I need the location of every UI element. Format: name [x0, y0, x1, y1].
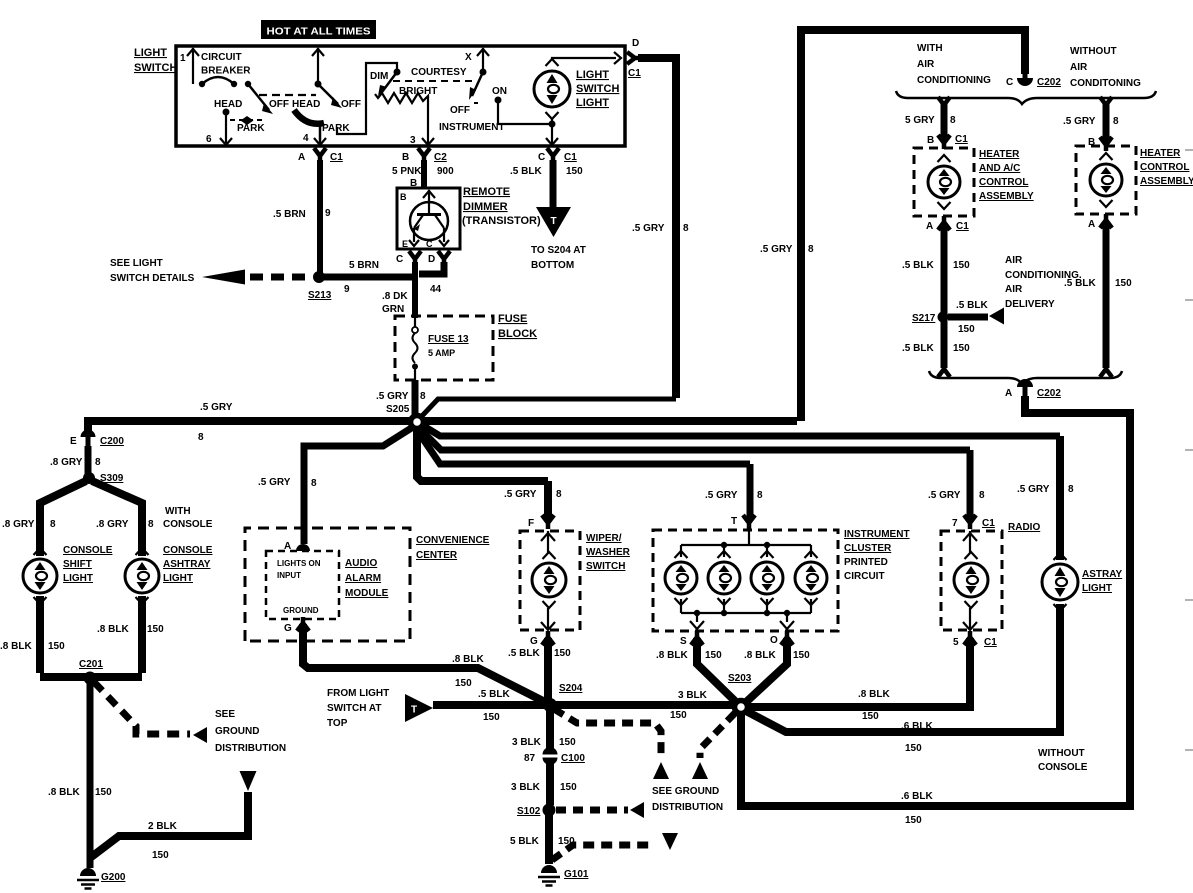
svg-text:B: B [927, 135, 934, 146]
wire head1 to pin 6 [206, 112, 232, 145]
heater and ac control assembly box [914, 148, 974, 216]
svg-text:GROUND: GROUND [283, 606, 319, 615]
svg-text:LIGHT: LIGHT [134, 47, 167, 59]
wire switch2 from top edge [312, 48, 324, 88]
wire A C1 to S217 (.5 BLK 150) [902, 223, 970, 314]
ganged link dim-instrument dashed [393, 80, 477, 82]
wire on to lamp bottom [498, 100, 552, 124]
svg-text:.8 DK: .8 DK [382, 291, 408, 302]
wire C200 to S309 (.8 GRY 8) [50, 446, 101, 474]
svg-text:HEAD: HEAD [214, 99, 242, 110]
convenience center dashed box [245, 528, 410, 641]
svg-text:8: 8 [683, 223, 689, 234]
with air conditioning text [917, 43, 991, 86]
console ashtray light lamp [125, 548, 159, 604]
svg-text:.5 GRY: .5 GRY [258, 477, 291, 488]
cluster label [844, 529, 910, 582]
wire fan R5 to cluster drop [417, 430, 750, 464]
svg-text:.8 BLK: .8 BLK [656, 650, 688, 661]
svg-text:CIRCUIT: CIRCUIT [201, 52, 242, 63]
svg-text:BLOCK: BLOCK [498, 328, 537, 340]
svg-text:.8 BLK: .8 BLK [744, 650, 776, 661]
wire resistor to pin 3 [410, 97, 434, 146]
head contact 1 [214, 99, 242, 116]
svg-text:8: 8 [979, 490, 985, 501]
svg-text:5: 5 [953, 637, 959, 648]
on contact [474, 86, 507, 104]
svg-text:FUSE: FUSE [498, 313, 527, 325]
svg-text:8: 8 [198, 432, 204, 443]
svg-text:S205: S205 [386, 404, 410, 415]
svg-text:WITH: WITH [917, 43, 943, 54]
radio entry arrow [963, 531, 977, 553]
svg-text:SWITCH DETAILS: SWITCH DETAILS [110, 273, 195, 284]
from light switch at top T arrow [405, 694, 433, 722]
svg-text:ASSEMBLY: ASSEMBLY [1140, 176, 1193, 187]
svg-text:PARK: PARK [237, 123, 265, 134]
svg-text:150: 150 [705, 650, 722, 661]
svg-text:MODULE: MODULE [345, 588, 389, 599]
wire D C1 down right side (.5 GRY 8) [632, 58, 689, 398]
svg-text:OFF: OFF [269, 99, 289, 110]
ground G101 [538, 865, 589, 886]
wire lamp top to D exit [552, 52, 621, 64]
svg-text:WASHER: WASHER [586, 547, 631, 558]
see light switch details text [110, 258, 195, 284]
svg-text:INPUT: INPUT [277, 571, 301, 580]
svg-text:150: 150 [670, 710, 687, 721]
wire fan R3 to astray drop [422, 425, 1060, 436]
wire fan R7 to wiper drop [417, 428, 548, 481]
wire C down to fuse block (.8 DK GRN) [382, 262, 415, 318]
connector G wiper [530, 631, 554, 647]
dashed wire see light switch details [202, 270, 313, 285]
connector B C1 heater [927, 134, 968, 149]
remote dimmer label [462, 186, 541, 227]
light switch label [134, 47, 177, 74]
svg-text:GROUND: GROUND [215, 726, 259, 737]
park label 2 [322, 123, 350, 134]
head label 2 [292, 99, 320, 110]
svg-text:ASHTRAY: ASHTRAY [163, 559, 211, 570]
svg-text:A: A [1088, 219, 1095, 230]
connector F wiper [528, 515, 554, 529]
svg-text:8: 8 [1113, 116, 1119, 127]
svg-text:.6 BLK: .6 BLK [901, 721, 933, 732]
connector E C200 [70, 430, 124, 448]
svg-text:.5 GRY: .5 GRY [1063, 116, 1096, 127]
svg-text:SHIFT: SHIFT [63, 559, 92, 570]
wiper washer switch label [586, 533, 631, 572]
svg-text:HEATER: HEATER [979, 149, 1020, 160]
connector S cluster [680, 631, 703, 647]
svg-text:B: B [402, 152, 409, 163]
heater and ac label [979, 149, 1034, 202]
cluster lamp 1 [665, 551, 697, 605]
connector C (dimmer) [396, 251, 421, 265]
svg-text:3 BLK: 3 BLK [511, 782, 541, 793]
svg-text:.5 BLK: .5 BLK [478, 689, 510, 700]
wire S217 to air delivery arrow (.5 BLK 150) [948, 300, 1004, 335]
svg-text:REMOTE: REMOTE [463, 186, 510, 198]
svg-text:150: 150 [152, 850, 169, 861]
svg-text:C: C [1006, 77, 1013, 88]
heater ac lamp [928, 155, 960, 209]
dim arm [378, 72, 397, 96]
svg-text:INSTRUMENT: INSTRUMENT [439, 122, 505, 133]
off label instrument [450, 105, 470, 116]
lower brace [929, 371, 1122, 384]
connector A C1 [298, 148, 343, 163]
svg-text:150: 150 [560, 782, 577, 793]
svg-text:AUDIO: AUDIO [345, 558, 377, 569]
connector D (dimmer) [428, 251, 450, 265]
svg-text:.5 GRY: .5 GRY [760, 244, 793, 255]
wire shift lamp down (.8 BLK 150) [0, 596, 65, 673]
T arrow to S204 at bottom [536, 207, 571, 237]
svg-text:8: 8 [1068, 484, 1074, 495]
wire to B heater (.5 GRY 8) [1063, 104, 1119, 144]
svg-text:.8 BLK: .8 BLK [452, 654, 484, 665]
splice S217 [912, 312, 949, 325]
cluster top bus [681, 530, 811, 557]
remote dimmer transistor box U1 [397, 188, 460, 249]
wire S203 down and right to without console riser (.6 BLK 150) [741, 713, 1126, 826]
connector bottom left AC branch [938, 363, 950, 377]
see ground distribution text (center) [652, 786, 723, 813]
astray light lamp [1042, 553, 1078, 611]
svg-text:7: 7 [952, 518, 958, 529]
svg-text:LIGHT: LIGHT [576, 97, 609, 109]
wire A C202 down right edge [1025, 396, 1130, 802]
splice S309 [83, 472, 124, 484]
svg-text:S203: S203 [728, 673, 752, 684]
circuit breaker CB [199, 52, 251, 87]
wire A C1 to S213 (.5 BRN 9) [273, 160, 331, 274]
svg-text:G101: G101 [564, 869, 589, 880]
svg-text:8: 8 [556, 489, 562, 500]
svg-text:DIMMER: DIMMER [463, 201, 508, 213]
splice C201 [79, 659, 103, 685]
wiper exit arrow [541, 608, 555, 630]
svg-text:PRINTED: PRINTED [844, 557, 888, 568]
pin G audio [284, 617, 309, 634]
svg-text:150: 150 [905, 743, 922, 754]
wire S204 down to C100 (3 BLK 150) [512, 709, 576, 750]
svg-text:DISTRIBUTION: DISTRIBUTION [215, 743, 286, 754]
svg-text:E: E [70, 436, 77, 447]
svg-text:150: 150 [566, 166, 583, 177]
connector bottom right nonAC branch [1100, 363, 1112, 377]
air conditioning air delivery text [1005, 255, 1082, 310]
svg-text:150: 150 [862, 711, 879, 722]
svg-text:WIPER/: WIPER/ [586, 533, 622, 544]
upper brace [896, 91, 1156, 104]
svg-text:150: 150 [559, 737, 576, 748]
wire radio 5 to S203 (.8 BLK 150) [745, 638, 970, 722]
heater control assembly box [1076, 146, 1136, 214]
svg-text:150: 150 [483, 712, 500, 723]
svg-text:AIR: AIR [1005, 284, 1023, 295]
svg-text:.8 BLK: .8 BLK [48, 787, 80, 798]
svg-text:C1: C1 [982, 518, 995, 529]
to s204 text [531, 245, 586, 271]
svg-text:A: A [1005, 388, 1012, 399]
wire S217 down (.5 BLK 150) [902, 320, 970, 368]
radio box [941, 531, 1002, 630]
svg-text:2 BLK: 2 BLK [148, 821, 178, 832]
svg-text:.5 GRY: .5 GRY [200, 402, 233, 413]
astray light label [1082, 569, 1123, 594]
svg-text:GRN: GRN [382, 304, 404, 315]
connector 5 C1 radio [953, 631, 997, 648]
connector C100 B7 [524, 747, 585, 765]
connector B C2 [402, 148, 447, 163]
cluster lamp 3 [751, 551, 783, 605]
light switch light lamp [534, 59, 570, 119]
fuse block dashed box [395, 316, 493, 380]
svg-text:LIGHT: LIGHT [1082, 583, 1112, 594]
svg-text:CONVENIENCE: CONVENIENCE [416, 535, 490, 546]
svg-text:G: G [530, 636, 538, 647]
wire fan R1 to D-C1 drop [421, 399, 676, 417]
svg-text:8: 8 [311, 478, 317, 489]
svg-text:150: 150 [95, 787, 112, 798]
svg-text:WITH: WITH [165, 506, 191, 517]
svg-text:.8 GRY: .8 GRY [96, 519, 129, 530]
wire S102 to G101 (5 BLK 150) [510, 814, 575, 864]
svg-text:150: 150 [455, 678, 472, 689]
pin A audio (lights on input) [284, 541, 310, 552]
svg-text:T: T [411, 705, 417, 716]
svg-text:D: D [632, 38, 639, 49]
svg-text:WITHOUT: WITHOUT [1070, 46, 1117, 57]
wire pin1 down from top edge [187, 48, 199, 84]
svg-text:INSTRUMENT: INSTRUMENT [844, 529, 910, 540]
wire audio G to S204 (.8 BLK 150) [303, 624, 545, 702]
svg-text:LIGHT: LIGHT [163, 573, 193, 584]
svg-text:C: C [538, 152, 545, 163]
svg-text:S217: S217 [912, 313, 936, 324]
dashed wire S203 to ground dist arrow 2 [700, 713, 735, 758]
ground dist arrow 1 [653, 762, 669, 779]
svg-text:RADIO: RADIO [1008, 522, 1040, 533]
switch arm 1 (head/off/park) [248, 84, 273, 114]
svg-text:SEE GROUND: SEE GROUND [652, 786, 719, 797]
svg-text:150: 150 [1115, 278, 1132, 289]
dashed wire S102 to ground dist arrow [556, 807, 628, 814]
wire R7 drop to wiper F (.5 GRY 8) [504, 481, 562, 520]
see ground distribution text (left) [215, 709, 286, 754]
wire C C1 to T arrow (.5 BLK 150) [510, 160, 583, 208]
connector on left AC branch [938, 97, 950, 111]
instrument cluster box [653, 530, 838, 631]
console shift light lamp [23, 548, 57, 604]
svg-text:.8 BLK: .8 BLK [0, 641, 32, 652]
off label 1 [269, 99, 289, 110]
splice S205 [411, 416, 424, 429]
svg-text:CONTROL: CONTROL [979, 177, 1028, 188]
svg-text:SEE: SEE [215, 709, 235, 720]
connector A C202 [1005, 379, 1061, 399]
dashed wire S204 to ground dist arrow 1 [554, 709, 661, 758]
svg-text:A: A [284, 541, 291, 552]
svg-text:150: 150 [953, 343, 970, 354]
svg-text:HOT AT ALL TIMES: HOT AT ALL TIMES [267, 26, 371, 38]
svg-text:SEE LIGHT: SEE LIGHT [110, 258, 163, 269]
dim contact [370, 69, 401, 83]
svg-text:150: 150 [147, 624, 164, 635]
splice S203 [728, 673, 752, 714]
svg-text:9: 9 [344, 284, 350, 295]
connector 7 C1 radio [952, 515, 995, 529]
svg-text:.5 BLK: .5 BLK [902, 260, 934, 271]
wire 2 BLK 150 up to arrow [90, 792, 248, 861]
fuse block label [498, 313, 537, 340]
svg-text:DIM: DIM [370, 71, 388, 82]
svg-text:150: 150 [554, 648, 571, 659]
svg-text:150: 150 [958, 324, 975, 335]
svg-text:C1: C1 [330, 152, 343, 163]
wire C201 to G200 (.8 BLK 150) [48, 682, 112, 868]
svg-text:.8 GRY: .8 GRY [50, 457, 83, 468]
svg-text:FUSE 13: FUSE 13 [428, 334, 469, 345]
wire park2 to dim contact [337, 63, 397, 134]
svg-text:3 BLK: 3 BLK [512, 737, 542, 748]
svg-text:C1: C1 [564, 152, 577, 163]
svg-text:8: 8 [950, 115, 956, 126]
wire ashtray lamp down (.8 BLK 150) [97, 596, 164, 673]
svg-text:ALARM: ALARM [345, 573, 381, 584]
svg-text:CIRCUIT: CIRCUIT [844, 571, 885, 582]
convenience center label [416, 535, 490, 561]
courtesy label [411, 67, 467, 78]
svg-text:8: 8 [95, 457, 101, 468]
lights on input text [277, 559, 321, 580]
svg-text:C202: C202 [1037, 77, 1061, 88]
svg-text:E: E [402, 239, 408, 249]
console ashtray light label [163, 545, 213, 584]
svg-text:ASTRAY: ASTRAY [1082, 569, 1123, 580]
svg-text:AND A/C: AND A/C [979, 163, 1020, 174]
svg-text:C2: C2 [434, 152, 447, 163]
svg-text:O: O [770, 635, 778, 646]
svg-text:S204: S204 [559, 683, 583, 694]
svg-text:5 BRN: 5 BRN [349, 260, 379, 271]
cluster lamp 2 [708, 551, 740, 605]
splice S102 [517, 804, 556, 818]
svg-text:CONSOLE: CONSOLE [63, 545, 113, 556]
svg-text:T: T [731, 516, 737, 527]
svg-text:900: 900 [437, 166, 454, 177]
wire to B C1 (5 GRY 8) [905, 104, 956, 142]
head-park wiper arc (bold) [294, 110, 324, 124]
svg-text:A: A [926, 221, 933, 232]
arrow end of 2 BLK [240, 771, 257, 791]
svg-text:DISTRIBUTION: DISTRIBUTION [652, 802, 723, 813]
svg-text:C201: C201 [79, 659, 103, 670]
svg-text:CONSOLE: CONSOLE [163, 545, 213, 556]
audio alarm module label [345, 558, 389, 599]
instrument label [439, 122, 505, 133]
svg-text:.5 BLK: .5 BLK [1064, 278, 1096, 289]
svg-text:COURTESY: COURTESY [411, 67, 467, 78]
bright label [399, 86, 437, 97]
svg-text:C100: C100 [561, 753, 585, 764]
without console corner [1038, 748, 1130, 806]
svg-text:ASSEMBLY: ASSEMBLY [979, 191, 1034, 202]
svg-text:.5 BLK: .5 BLK [510, 166, 542, 177]
wiper box entry arrow [541, 531, 555, 553]
wire T arrow to S204 (.5 BLK 150) [433, 689, 547, 723]
svg-text:3 BLK: 3 BLK [678, 690, 708, 701]
svg-text:3: 3 [410, 135, 416, 146]
svg-text:.5 GRY: .5 GRY [632, 223, 665, 234]
svg-text:8: 8 [757, 490, 763, 501]
hot at all times label [261, 20, 376, 39]
svg-text:.5 GRY: .5 GRY [705, 490, 738, 501]
svg-text:CONDITIONING: CONDITIONING [917, 75, 991, 86]
radio exit arrow [963, 608, 977, 630]
svg-text:8: 8 [148, 519, 154, 530]
wire C100 to S102 (3 BLK 150) [511, 759, 577, 805]
connector C C1 [538, 148, 577, 163]
svg-text:5 PNK: 5 PNK [392, 166, 422, 177]
wire S204 to S203 (3 BLK 150) [553, 690, 738, 721]
svg-text:D: D [428, 254, 435, 265]
svg-text:.5 BLK: .5 BLK [956, 300, 988, 311]
svg-text:C1: C1 [956, 221, 969, 232]
wire wiper G to S204 (.5 BLK 150) [508, 638, 571, 703]
svg-text:.8 BLK: .8 BLK [858, 689, 890, 700]
splice S204 [543, 683, 583, 712]
svg-text:1: 1 [180, 53, 186, 64]
light switch light label [576, 69, 619, 109]
connector O cluster [770, 631, 793, 646]
wire R2 riser to C C202 [760, 30, 1025, 421]
svg-text:LIGHTS ON: LIGHTS ON [277, 559, 321, 568]
svg-text:CONDITONING: CONDITONING [1070, 78, 1141, 89]
transistor symbol Q1 [400, 190, 449, 249]
svg-text:8: 8 [50, 519, 56, 530]
svg-text:G: G [284, 623, 292, 634]
instrument switch arm [469, 72, 483, 100]
svg-text:S102: S102 [517, 806, 541, 817]
svg-text:T: T [550, 216, 556, 227]
svg-text:.5 GRY: .5 GRY [376, 391, 409, 402]
radio lamp [954, 552, 988, 608]
wire A down right branch (.5 BLK 150) [1064, 221, 1132, 368]
ground text [283, 606, 319, 615]
wire S213 to dimmer C (5 BRN 9) [322, 260, 415, 295]
svg-text:TO S204 AT: TO S204 AT [531, 245, 586, 256]
svg-text:C1: C1 [984, 637, 997, 648]
svg-text:SWITCH: SWITCH [576, 83, 619, 95]
svg-text:CONSOLE: CONSOLE [1038, 762, 1088, 773]
svg-text:DELIVERY: DELIVERY [1005, 299, 1055, 310]
svg-text:.5 BRN: .5 BRN [273, 209, 306, 220]
wire fan R2 main to C202 riser [423, 417, 797, 425]
svg-text:CENTER: CENTER [416, 550, 458, 561]
lamp bottom node [546, 119, 558, 145]
svg-text:BOTTOM: BOTTOM [531, 260, 574, 271]
ground dist arrow bottom [662, 833, 678, 850]
fuse 13 symbol F13 [412, 318, 469, 380]
light switch box [176, 46, 625, 146]
svg-text:8: 8 [808, 244, 814, 255]
wire R5 drop to cluster T (.5 GRY 8) [705, 464, 763, 520]
rheostat resistor [375, 93, 428, 103]
